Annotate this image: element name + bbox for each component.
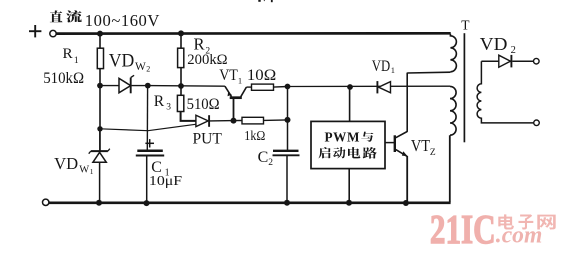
capacitor C2 [273, 150, 299, 152]
svg-text:R: R [154, 93, 165, 110]
node junction VDW2/C1 [145, 83, 151, 89]
wire C1 bottom lead [146, 156, 148, 204]
diode PUT [196, 115, 208, 126]
node minus-input terminal [43, 199, 49, 205]
diode VD1 [376, 81, 378, 93]
wire C2 column lower [286, 155, 288, 203]
wire top rail [56, 32, 451, 35]
svg-text:2: 2 [511, 45, 516, 56]
svg-text:1: 1 [74, 56, 79, 66]
node junction R2-R3 row [178, 83, 184, 89]
svg-text:PUT: PUT [193, 130, 222, 148]
node junction 1k/C2 column [285, 117, 291, 123]
svg-text:510kΩ: 510kΩ [43, 70, 84, 87]
svg-text:VD: VD [54, 154, 78, 173]
resistor R1 [97, 48, 103, 68]
wire PUT gate from node row [100, 124, 197, 131]
transistor VT2 [394, 135, 396, 152]
svg-text:1kΩ: 1kΩ [244, 128, 265, 143]
wire C2 column upper [287, 87, 289, 151]
node output terminal lower [534, 120, 540, 126]
wire 1k to C2 node [264, 119, 288, 122]
svg-text:10Ω: 10Ω [247, 67, 276, 84]
svg-text:1: 1 [238, 75, 242, 85]
svg-text:T: T [461, 18, 470, 33]
wire primary bottom to VT2 collector [407, 71, 450, 74]
transistor VT1 [225, 86, 232, 96]
resistor 1kOhm [242, 117, 264, 124]
svg-text:VD: VD [372, 58, 390, 75]
capacitor C1 [137, 149, 163, 152]
wire R2 top lead [180, 33, 182, 48]
wire row VDW2 to VT1 emitter [148, 85, 225, 88]
node junction 10Ohm/feedback row [285, 84, 291, 90]
svg-text:R: R [194, 35, 206, 54]
wire R2 bottom lead [180, 68, 182, 96]
node junction VDW1/ground [96, 200, 102, 206]
svg-text:2: 2 [268, 158, 273, 168]
svg-text:Z: Z [430, 148, 436, 158]
svg-text:.com: .com [496, 222, 543, 248]
resistor 10Ohm [252, 84, 274, 90]
svg-text:3: 3 [166, 102, 171, 112]
node junction VT2 emitter/ground [403, 200, 409, 206]
transformer secondary winding [477, 61, 534, 123]
wire VT2 emitter to ground [406, 156, 408, 203]
watermark 电子网 [498, 214, 514, 229]
wire PWM supply drop [349, 87, 351, 121]
wire R1 top lead [99, 34, 101, 49]
node junction PWM supply [347, 84, 353, 90]
wire 10Ohm to C2 node [274, 86, 288, 89]
wire C1 top lead [146, 86, 148, 150]
wire PWM box output to VT2 base [385, 142, 394, 144]
wire feedback winding bottom to ground rail end [449, 135, 451, 202]
svg-text:21IC: 21IC [430, 206, 496, 252]
svg-text:R: R [63, 45, 74, 62]
wire secondary top to VD2 [481, 60, 498, 62]
node junction C1/ground [144, 200, 150, 206]
transformer T primary winding upper [450, 34, 456, 72]
svg-text:2: 2 [146, 65, 150, 74]
block PWM and start circuit U1 [311, 121, 385, 168]
svg-text:200kΩ: 200kΩ [187, 52, 227, 68]
svg-text:10μF: 10μF [149, 173, 182, 188]
node junction PWM/ground [346, 200, 352, 206]
node junction C2/ground [284, 200, 290, 206]
svg-text:W: W [135, 61, 146, 73]
svg-text:W: W [79, 165, 89, 176]
transformer core [463, 33, 465, 142]
svg-text:C: C [258, 149, 269, 166]
svg-text:VD: VD [480, 34, 508, 54]
label C1 plus polarity [145, 142, 154, 144]
crop-text remnants top edge [258, 0, 260, 2]
node junction gate-row [97, 126, 102, 131]
svg-text:VT: VT [219, 67, 238, 84]
node junction R1/VDW2 anode [97, 83, 103, 89]
svg-text:510Ω: 510Ω [187, 96, 220, 113]
svg-text:PWM: PWM [325, 129, 361, 144]
svg-text:100~160V: 100~160V [85, 11, 160, 30]
node junction R2/top-rail [178, 30, 184, 36]
wire feedback-winding row [288, 85, 451, 87]
node junction PUT/VT1 base/1k [231, 118, 237, 124]
resistor R2 [178, 48, 184, 67]
svg-text:1: 1 [391, 65, 395, 75]
node output terminal upper [534, 58, 540, 64]
node plus-input terminal [29, 30, 41, 32]
node junction R1/top-rail [97, 31, 103, 37]
diode VDW2 (zener) [100, 85, 119, 87]
wire ground rail [49, 202, 451, 205]
diode VDW1 (zener) [99, 129, 101, 150]
label 直流 (DC) [50, 10, 63, 22]
diode VD2 [499, 55, 511, 67]
svg-text:1: 1 [90, 167, 94, 176]
wire PUT cathode to 1k [234, 120, 243, 122]
resistor R3 [177, 95, 183, 111]
wire PWM box bottom to ground [348, 169, 350, 203]
svg-text:VD: VD [109, 51, 135, 72]
transformer T feedback winding [450, 86, 456, 135]
wire VT2 collector to primary winding [406, 73, 408, 132]
wire R3 bottom bend to PUT anode [181, 112, 196, 121]
svg-text:VT: VT [411, 136, 431, 155]
wire R1 bottom lead down to VDW1 [99, 69, 101, 151]
